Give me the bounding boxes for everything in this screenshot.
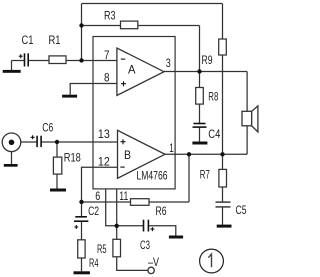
svg-text:12: 12 (98, 155, 110, 169)
svg-text:3: 3 (166, 56, 171, 70)
svg-text:C3: C3 (140, 238, 150, 252)
svg-text:C5: C5 (236, 203, 247, 217)
svg-text:6: 6 (95, 189, 100, 203)
svg-text:A: A (128, 63, 136, 77)
svg-text:R5: R5 (97, 242, 107, 256)
svg-text:LM4766: LM4766 (137, 168, 168, 182)
svg-text:11: 11 (119, 189, 128, 203)
svg-text:1: 1 (169, 141, 174, 155)
svg-text:R1: R1 (49, 33, 61, 47)
svg-text:13: 13 (98, 127, 110, 141)
svg-text:R6: R6 (156, 204, 167, 218)
svg-text:B: B (124, 148, 131, 162)
svg-text:C4: C4 (208, 127, 220, 141)
svg-text:–V: –V (148, 255, 159, 269)
svg-text:R18: R18 (64, 150, 81, 164)
svg-text:R9: R9 (202, 53, 213, 67)
svg-text:R4: R4 (89, 256, 99, 270)
svg-text:C2: C2 (88, 204, 99, 218)
svg-text:8: 8 (104, 71, 110, 85)
svg-text:R8: R8 (208, 90, 218, 104)
svg-text:R7: R7 (200, 168, 210, 182)
svg-text:R3: R3 (104, 8, 116, 22)
svg-text:C1: C1 (22, 33, 34, 47)
svg-text:C6: C6 (42, 121, 53, 135)
svg-text:7: 7 (104, 48, 110, 62)
